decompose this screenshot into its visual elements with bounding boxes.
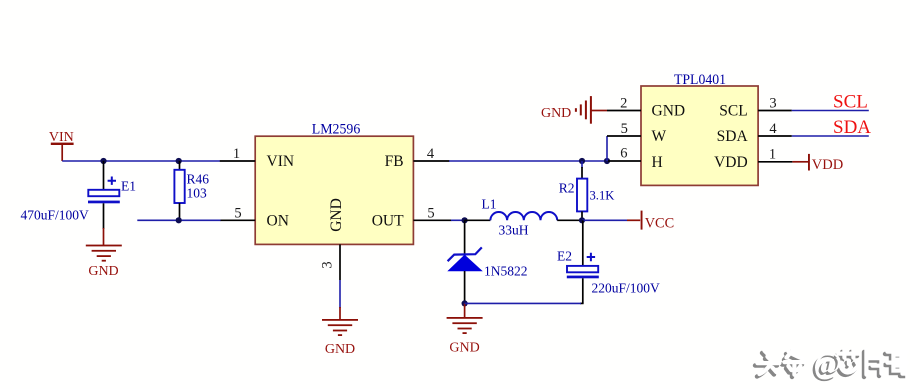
pin 2 (GND left) bbox=[607, 96, 641, 112]
svg-text:3: 3 bbox=[769, 96, 776, 112]
svg-text:SCL: SCL bbox=[833, 92, 868, 113]
wire FB net bbox=[449, 160, 609, 162]
svg-text:@: @ bbox=[813, 345, 842, 380]
IC U1 LM2596 body bbox=[255, 122, 413, 245]
junction VIN/R46 bbox=[176, 158, 182, 164]
pin 1 (VIN) bbox=[220, 146, 255, 162]
svg-text:VIN: VIN bbox=[49, 130, 74, 145]
junction VIN/E1 bbox=[100, 158, 106, 164]
pin 1 (VDD right) bbox=[758, 146, 792, 162]
svg-text:5: 5 bbox=[427, 205, 434, 221]
svg-text:OUT: OUT bbox=[372, 213, 404, 230]
svg-text:220uF/100V: 220uF/100V bbox=[592, 281, 661, 296]
svg-text:2: 2 bbox=[620, 96, 627, 112]
pin 4 (SDA right) bbox=[758, 121, 792, 137]
svg-text:3: 3 bbox=[320, 261, 336, 268]
svg-text:R2: R2 bbox=[559, 181, 575, 196]
ground GND below diode bbox=[447, 303, 483, 355]
watermark 头条 @芯片哥 bbox=[755, 345, 907, 382]
svg-text:VDD: VDD bbox=[812, 157, 844, 173]
wire VIN net bbox=[62, 160, 220, 162]
svg-text:GND: GND bbox=[449, 340, 479, 355]
svg-text:1N5822: 1N5822 bbox=[484, 264, 528, 279]
wire SCL bbox=[792, 110, 869, 112]
svg-text:E2: E2 bbox=[557, 249, 572, 264]
svg-text:GND: GND bbox=[325, 342, 355, 357]
svg-text:5: 5 bbox=[234, 205, 241, 221]
inductor L1 (33uH) bbox=[465, 196, 582, 237]
wire ON net bbox=[137, 219, 221, 221]
svg-text:R46: R46 bbox=[187, 171, 210, 186]
svg-text:4: 4 bbox=[427, 146, 435, 162]
svg-text:W: W bbox=[652, 128, 667, 145]
svg-text:SDA: SDA bbox=[833, 117, 871, 138]
power port VCC bbox=[582, 211, 674, 232]
power port VDD bbox=[792, 154, 843, 173]
wire SDA bbox=[792, 135, 869, 137]
capacitor E1 (470uF/100V) bbox=[21, 161, 137, 229]
wire OUT net bbox=[451, 219, 466, 221]
svg-text:H: H bbox=[652, 154, 663, 171]
pin 5 right (OUT) bbox=[413, 205, 451, 221]
svg-text:6: 6 bbox=[620, 145, 627, 161]
svg-text:ON: ON bbox=[267, 213, 289, 230]
svg-text:GND: GND bbox=[541, 106, 571, 121]
IC U2 TPL0401 body bbox=[641, 72, 758, 185]
wire W branch vertical bbox=[606, 136, 608, 161]
capacitor E2 (220uF/100V) bbox=[557, 220, 660, 303]
pin 4 (FB) bbox=[413, 146, 449, 162]
svg-text:1: 1 bbox=[233, 146, 240, 162]
svg-text:GND: GND bbox=[88, 264, 118, 279]
svg-text:1: 1 bbox=[769, 146, 776, 162]
ground GND sideways at pin 2 bbox=[541, 96, 607, 124]
wire bottom return bbox=[465, 302, 581, 304]
resistor R2 (3.1K) bbox=[559, 161, 615, 220]
svg-text:E1: E1 bbox=[121, 179, 136, 194]
pin 3 (GND bottom) bbox=[320, 244, 341, 280]
svg-text:5: 5 bbox=[621, 121, 628, 137]
pin 6 (H left) bbox=[608, 145, 641, 161]
resistor R46 (103) bbox=[174, 161, 209, 220]
pin 5 (W left) bbox=[607, 121, 641, 137]
diode D1 1N5822 (schottky) bbox=[447, 220, 527, 303]
junction FB/R2 bbox=[579, 158, 585, 164]
wire pin3 to ground bbox=[339, 280, 341, 308]
pin 3 (SCL right) bbox=[758, 96, 792, 112]
svg-text:470uF/100V: 470uF/100V bbox=[21, 207, 90, 222]
svg-text:SCL: SCL bbox=[719, 103, 747, 120]
junction VCC node bbox=[579, 217, 585, 223]
svg-text:TPL0401: TPL0401 bbox=[674, 72, 726, 88]
svg-text:L1: L1 bbox=[482, 196, 497, 211]
ground GND below LM2596 bbox=[322, 307, 358, 357]
svg-text:GND: GND bbox=[652, 103, 686, 120]
svg-text:FB: FB bbox=[385, 153, 404, 170]
svg-text:VIN: VIN bbox=[267, 153, 295, 170]
svg-text:103: 103 bbox=[187, 186, 208, 201]
svg-text:3.1K: 3.1K bbox=[590, 189, 615, 203]
junction R46/ON bbox=[176, 217, 182, 223]
junction FB/W branch bbox=[604, 158, 610, 164]
svg-text:33uH: 33uH bbox=[499, 222, 529, 237]
svg-text:SDA: SDA bbox=[717, 128, 749, 145]
junction OUT/diode bbox=[462, 217, 468, 223]
power port VIN bbox=[49, 130, 74, 161]
svg-text:4: 4 bbox=[769, 121, 777, 137]
pin 5 left (ON) bbox=[221, 205, 256, 221]
svg-text:LM2596: LM2596 bbox=[312, 122, 361, 138]
svg-text:VCC: VCC bbox=[645, 216, 675, 232]
svg-text:GND: GND bbox=[328, 198, 345, 232]
junction diode/bottom wire bbox=[462, 300, 468, 306]
svg-text:VDD: VDD bbox=[714, 154, 748, 171]
ground GND below E1 bbox=[86, 228, 122, 279]
